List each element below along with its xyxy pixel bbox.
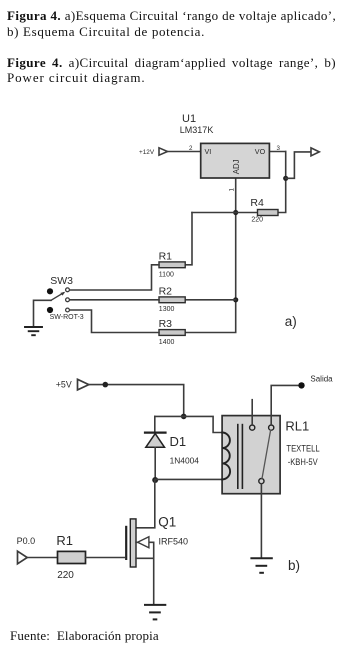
svg-text:TEXTELL: TEXTELL xyxy=(286,443,319,453)
junction node R2 xyxy=(233,297,238,302)
wire +12V to U1 VI xyxy=(168,151,201,153)
svg-text:2: 2 xyxy=(189,145,193,152)
svg-text:VO: VO xyxy=(255,147,266,156)
svg-text:Q1: Q1 xyxy=(158,515,176,530)
junction node D1 anode xyxy=(152,477,158,483)
terminal dot Salida xyxy=(298,382,304,388)
svg-text:b): b) xyxy=(288,558,300,573)
wire coil bottom xyxy=(155,478,222,480)
wire output branch xyxy=(286,152,311,178)
svg-text:a): a) xyxy=(285,314,297,329)
junction node ADJ/R4 row xyxy=(233,210,238,215)
junction node VO branch xyxy=(283,176,288,181)
svg-text:-KBH-5V: -KBH-5V xyxy=(288,457,318,467)
svg-text:SW3: SW3 xyxy=(50,275,73,287)
output arrow xyxy=(311,148,319,156)
svg-text:3: 3 xyxy=(277,145,281,152)
wire R1 to gate xyxy=(86,557,126,559)
wire U1 VO to right xyxy=(269,151,285,153)
ground (Q1 source) xyxy=(145,605,165,620)
power flag +5V xyxy=(78,379,89,390)
ground (switch common) xyxy=(25,327,42,335)
wire relay common to Salida xyxy=(271,385,301,425)
wire ADJ down to R3 row xyxy=(185,178,236,333)
wire relay NO stub xyxy=(251,400,253,425)
svg-text:1400: 1400 xyxy=(159,339,175,346)
node on +5V wire xyxy=(103,382,109,388)
source caption Fuente xyxy=(10,629,159,642)
wire VO down to R4 right xyxy=(278,152,286,213)
wire SW3 contact1 to R1 xyxy=(70,265,160,290)
transistor Q1 xyxy=(126,519,154,567)
svg-text:R1: R1 xyxy=(56,533,73,548)
svg-text:D1: D1 xyxy=(170,434,187,449)
resistor R3 xyxy=(159,330,185,336)
wire SW3 contact3 to R3 xyxy=(70,310,160,333)
input flag P0.0 xyxy=(18,551,28,564)
figure caption Spanish line 1 xyxy=(7,9,336,22)
svg-text:220: 220 xyxy=(57,570,74,581)
svg-text:Salida: Salida xyxy=(310,375,333,384)
svg-text:IRF540: IRF540 xyxy=(159,537,189,547)
svg-text:+5V: +5V xyxy=(56,380,72,390)
resistor R2 xyxy=(159,297,185,303)
svg-text:+12V: +12V xyxy=(139,149,155,156)
svg-text:ADJ: ADJ xyxy=(232,159,241,174)
svg-text:VI: VI xyxy=(205,147,212,156)
wire P0.0 to R1 xyxy=(27,557,57,559)
wire drain xyxy=(136,480,155,528)
wire SW3 contact2 to R2 xyxy=(70,299,160,301)
svg-text:1N4004: 1N4004 xyxy=(170,455,200,465)
wire source to ground xyxy=(153,542,155,604)
svg-text:1100: 1100 xyxy=(159,271,174,278)
svg-text:P0.0: P0.0 xyxy=(17,536,36,546)
figure caption Spanish line 2 xyxy=(7,25,205,38)
svg-text:R4: R4 xyxy=(250,197,264,209)
svg-text:LM317K: LM317K xyxy=(180,125,214,135)
rotary switch SW3 xyxy=(47,288,70,313)
resistor R1 xyxy=(159,262,185,268)
svg-text:1300: 1300 xyxy=(159,306,175,313)
wire SW3 pole to ground xyxy=(34,300,52,326)
wire D1 cathode stem xyxy=(154,416,156,432)
wire +5V to coil node xyxy=(89,385,184,417)
resistor R4 xyxy=(258,210,279,216)
svg-text:R3: R3 xyxy=(159,318,173,330)
resistor R1 (circuit b) xyxy=(58,551,86,563)
svg-text:U1: U1 xyxy=(182,113,196,125)
power flag +12V xyxy=(159,148,168,155)
wire R4 row horizontal xyxy=(192,212,258,214)
svg-text:RL1: RL1 xyxy=(285,419,309,434)
wire R1 right riser xyxy=(185,213,192,265)
svg-text:R1: R1 xyxy=(159,251,173,263)
wire relay contact to ground xyxy=(260,484,262,558)
relay RL1 xyxy=(222,416,280,494)
junction node coil top xyxy=(181,414,187,420)
wire coil-top horizontal xyxy=(155,416,222,432)
wire R2 right to node xyxy=(185,299,236,301)
svg-text:SW-ROT-3: SW-ROT-3 xyxy=(50,314,84,321)
svg-text:R2: R2 xyxy=(159,286,173,298)
figure caption English line 2 xyxy=(7,71,146,84)
figure caption English line 1 xyxy=(7,56,336,69)
svg-text:1: 1 xyxy=(229,188,236,192)
svg-text:220: 220 xyxy=(251,217,263,224)
diode D1 xyxy=(145,433,166,480)
regulator U1 LM317K xyxy=(201,143,270,178)
ground (relay contact) xyxy=(251,558,271,573)
